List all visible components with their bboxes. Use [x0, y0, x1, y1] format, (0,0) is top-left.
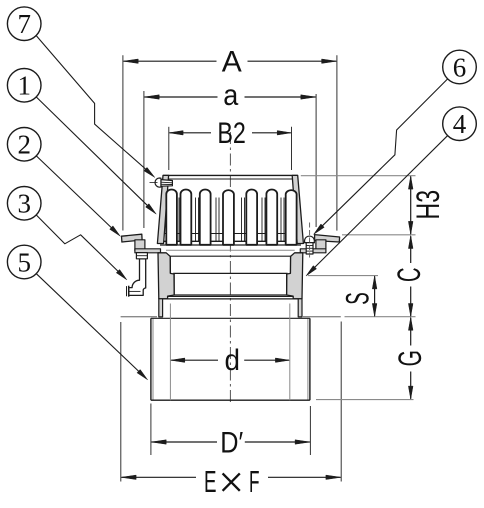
callout circle 7 [7, 7, 41, 41]
callout circle 6 [443, 50, 477, 84]
spigot inner wall / d extension left [169, 304, 171, 401]
strainer front bars (item 1) [166, 190, 296, 245]
svg-text:4: 4 [453, 109, 467, 139]
dimension a [144, 79, 316, 112]
dimension D' extension lines [151, 404, 311, 456]
dimension H3 [408, 176, 446, 234]
leader line 2 [36, 155, 121, 236]
G bottom extension line [316, 399, 414, 401]
leader line 4 [306, 135, 448, 276]
dimension B2 extension lines [169, 127, 292, 170]
svg-text:D′: D′ [220, 426, 243, 459]
svg-text:5: 5 [17, 247, 31, 277]
pipe (item 5) [151, 318, 310, 400]
svg-text:H3: H3 [410, 190, 446, 220]
svg-text:F: F [249, 464, 260, 499]
dimension S [339, 276, 377, 317]
clamp bolt (item 6) [304, 223, 315, 258]
S top extension line [308, 275, 378, 277]
strainer top rim [163, 175, 298, 179]
svg-text:1: 1 [17, 71, 31, 101]
svg-text:3: 3 [17, 189, 31, 219]
svg-text:d: d [224, 344, 240, 377]
strainer right wall [292, 175, 303, 243]
H3 top extension line [301, 175, 416, 177]
leader line 6 [314, 79, 448, 235]
callout circle 1 [7, 69, 41, 103]
dimension a extension lines [144, 91, 316, 228]
callout circle 4 [443, 107, 477, 141]
svg-text:A: A [222, 45, 242, 78]
dimension ExF [121, 464, 341, 499]
svg-text:7: 7 [17, 9, 31, 39]
dimension d [171, 344, 290, 377]
strainer base band [160, 234, 301, 246]
svg-text:S: S [339, 292, 375, 305]
svg-text:C: C [391, 267, 427, 282]
svg-text:6: 6 [453, 52, 467, 82]
svg-text:a: a [223, 79, 238, 112]
callout circle 3 [7, 187, 41, 221]
dimension A extension lines [123, 55, 337, 230]
drain body left (item 2 flange wing + wall) [122, 234, 175, 317]
strainer left wall [157, 175, 168, 243]
callout circle 5 [7, 245, 41, 279]
centerline (vertical dash-dot) [229, 132, 231, 404]
svg-text:B2: B2 [217, 117, 246, 150]
svg-text:G: G [392, 350, 428, 367]
spigot inner wall / d extension right [289, 304, 291, 401]
dimension B2 [169, 117, 291, 150]
callout circle 2 [7, 128, 41, 162]
drain cock pipe (item 3) [127, 253, 148, 297]
clamping ring (item 4 region) [163, 250, 299, 299]
strainer back bars [179, 198, 284, 242]
deck extension line right [345, 316, 416, 318]
dimension A [123, 45, 336, 78]
dimension C [391, 236, 427, 317]
leader line 7 [36, 35, 155, 177]
svg-text:E: E [204, 464, 217, 499]
dimension D' [151, 426, 310, 459]
drain body right (flange wing + wall) [287, 235, 340, 317]
deck plate top line [121, 316, 341, 318]
fixing screw (item 7) [150, 178, 173, 187]
leader line 5 [36, 273, 148, 380]
dimension ExF extension lines [121, 322, 341, 482]
leader line 1 [36, 97, 156, 215]
svg-text:2: 2 [17, 130, 31, 160]
H3/C shared extension line [342, 234, 416, 236]
dimension G [392, 317, 428, 399]
leader line 3 [36, 215, 127, 280]
body inner walls [170, 256, 290, 295]
